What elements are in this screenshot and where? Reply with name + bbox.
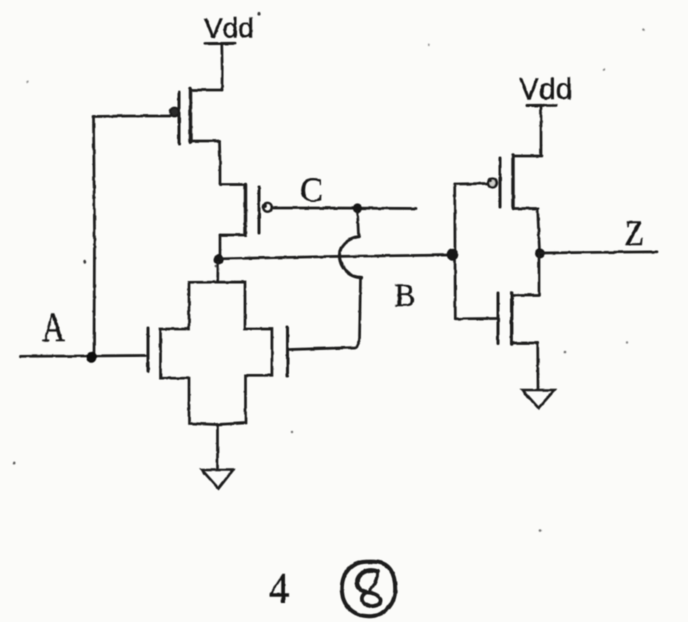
wire M2 drain down to node B <box>219 235 222 256</box>
wire M1 source top lead <box>191 89 222 92</box>
transistor M1 channel bar <box>189 89 192 143</box>
circled 8 annotation <box>342 562 395 617</box>
svg-text:A: A <box>42 305 65 351</box>
wire C from M2 gate to right stub <box>272 207 416 210</box>
wire M1 gate lead <box>93 115 170 118</box>
wire C node down to hop <box>358 211 359 236</box>
transistor M2 gate bubble <box>263 203 271 211</box>
wire M3 drain down to node Z <box>538 209 540 252</box>
svg-text:4: 4 <box>269 566 289 613</box>
svg-text:B: B <box>395 278 416 314</box>
transistor M4 source bottom lead <box>512 342 538 345</box>
transistor M3 source top lead <box>513 155 542 158</box>
wire B horizontal to inverter input <box>220 255 452 259</box>
transistor M4 drain top lead <box>512 294 538 297</box>
power Vdd1 underline <box>205 42 235 45</box>
transistor M1 gate bubble <box>170 108 179 117</box>
NMOS pair shared diffusion (plus shape) <box>161 282 272 425</box>
ground 1 symbol <box>202 470 233 489</box>
svg-text:C: C <box>300 172 323 209</box>
wire node B to plus diffusion <box>216 262 219 282</box>
svg-text:Z: Z <box>625 213 645 253</box>
wire M4 source down to ground <box>536 343 539 390</box>
transistor M2 source top lead <box>220 183 246 186</box>
transistor M4 channel bar <box>510 293 513 344</box>
transistor M1 gate bar <box>178 92 181 145</box>
transistor M4 gate bar <box>497 293 500 344</box>
node A junction dot <box>87 351 97 363</box>
transistor M2 channel bar <box>244 185 247 236</box>
wire M4 drain up to node Z <box>538 254 541 296</box>
node B2 junction dot <box>447 248 459 260</box>
wire inverter input bus <box>453 184 456 319</box>
ground 2 symbol <box>522 390 554 408</box>
transistor M6 gate bar (right NMOS) <box>286 327 289 377</box>
transistor M3 channel bar <box>511 155 514 209</box>
transistor M3 gate bubble <box>488 179 497 188</box>
node B junction dot <box>214 255 224 265</box>
wire Z output <box>540 252 657 253</box>
wire hop down to M6 gate <box>290 278 361 350</box>
wire M3 gate lead <box>455 182 488 185</box>
node C junction dot <box>353 204 362 213</box>
wire M1 drain down to M2 <box>218 141 221 185</box>
wire plus diffusion to ground <box>216 425 219 470</box>
wire Vdd1 to M1 source <box>220 45 223 90</box>
transistor M3 gate bar <box>499 158 502 207</box>
scan specks (decorative) <box>13 12 645 531</box>
wire Vdd2 to M3 source <box>540 107 543 156</box>
wire A input vertical to M1 gate <box>94 117 95 357</box>
transistor M2 gate bar <box>258 187 261 233</box>
svg-text:Vdd: Vdd <box>204 13 254 44</box>
wire A input horizontal <box>20 354 146 357</box>
transistor M3 drain bottom lead <box>513 207 538 210</box>
transistor M5 gate bar (left NMOS) <box>147 328 150 372</box>
node Z junction dot <box>535 249 545 259</box>
wire hop arc over B wire <box>339 237 361 278</box>
wire M1 drain bottom lead <box>191 140 220 143</box>
wire M4 gate lead <box>455 317 496 320</box>
svg-text:Vdd: Vdd <box>519 73 572 106</box>
power Vdd2 underline <box>527 104 556 107</box>
transistor M2 drain bottom lead <box>220 234 246 237</box>
